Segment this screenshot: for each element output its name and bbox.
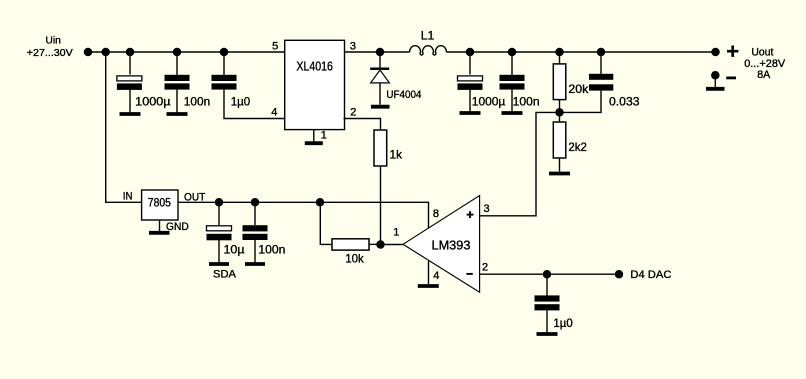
svg-text:1µ0: 1µ0: [231, 94, 251, 108]
svg-text:100n: 100n: [184, 94, 210, 108]
ground XL4016 pin1: [305, 130, 323, 144]
svg-text:1k: 1k: [390, 148, 403, 162]
svg-text:7805: 7805: [148, 195, 171, 209]
svg-text:XL4016: XL4016: [296, 58, 333, 73]
wire pin4 to ground: [428, 261, 430, 285]
wire to 7805 IN: [106, 52, 142, 202]
svg-text:4: 4: [271, 106, 277, 118]
wire node to apex: [381, 244, 404, 246]
input terminal: [84, 48, 93, 57]
junction: [376, 48, 385, 57]
svg-text:SDA: SDA: [213, 269, 237, 281]
junction: [555, 48, 564, 57]
wire 7805 OUT rail: [178, 202, 429, 228]
svg-text:Uin: Uin: [45, 35, 61, 47]
svg-text:10k: 10k: [345, 252, 364, 266]
diode D1 UF4004: [370, 52, 421, 105]
capacitor C2 100n input: [165, 52, 211, 113]
junction: [597, 48, 606, 57]
output terminal plus: [711, 48, 720, 57]
svg-text:8: 8: [433, 208, 439, 220]
junction: [220, 48, 229, 57]
op-amp U3 LM393: [403, 196, 480, 293]
capacitor C5 100n output: [500, 52, 540, 112]
svg-text:1: 1: [393, 226, 399, 238]
junction: [466, 48, 475, 57]
wire top rail left: [88, 51, 285, 53]
resistor R1 20k: [553, 52, 589, 112]
capacitor C6 0.033: [560, 52, 640, 112]
wire top rail right: [446, 51, 715, 53]
ground: [245, 262, 265, 266]
wire 1k to node: [380, 166, 382, 245]
ground: [371, 105, 390, 109]
ground: [502, 111, 523, 115]
svg-text:3: 3: [484, 203, 490, 215]
ground: [549, 172, 570, 176]
svg-text:100n: 100n: [258, 242, 285, 256]
junction: [508, 48, 517, 57]
node Uin label: [27, 35, 73, 59]
junction: [215, 198, 224, 207]
output terminal minus: [711, 71, 720, 87]
svg-text:D4 DAC: D4 DAC: [630, 269, 671, 281]
junction: [251, 198, 260, 207]
svg-text:2: 2: [482, 261, 488, 273]
terminal D4 DAC: [615, 270, 624, 279]
svg-text:5: 5: [272, 41, 278, 53]
capacitor C4 1000µ output: [458, 52, 506, 112]
svg-text:4: 4: [433, 270, 439, 282]
ground: [167, 112, 188, 116]
junction: [101, 48, 110, 57]
junction: [173, 48, 182, 57]
minus input mark: [466, 273, 472, 275]
ground SDA: [209, 264, 237, 281]
resistor R3 1k: [374, 130, 403, 166]
ground: [706, 87, 725, 91]
svg-text:1: 1: [321, 129, 327, 141]
ground LM393: [418, 284, 439, 288]
capacitor C3 1µ0: [212, 52, 286, 119]
svg-text:2: 2: [350, 106, 356, 118]
svg-text:2k2: 2k2: [568, 140, 587, 154]
svg-text:1000µ: 1000µ: [472, 95, 506, 109]
capacitor C7 10µ: [207, 202, 245, 262]
plus sign: [727, 46, 738, 57]
wire 10k branch: [320, 202, 332, 244]
svg-text:3: 3: [350, 41, 356, 53]
wire top rail mid: [345, 51, 410, 53]
junction: [543, 270, 552, 279]
junction: [316, 198, 325, 207]
junction: [126, 48, 135, 57]
op-amp U1 XL4016: [285, 40, 345, 129]
node FB junction: [555, 108, 564, 117]
ground 7805: [149, 221, 170, 233]
svg-text:20k: 20k: [568, 82, 589, 96]
svg-text:Uout: Uout: [751, 46, 773, 58]
svg-text:L1: L1: [421, 29, 435, 43]
ground: [460, 111, 481, 115]
svg-text:UF4004: UF4004: [386, 89, 421, 101]
plus input mark: [467, 211, 474, 218]
wire pin2 out: [480, 273, 619, 275]
capacitor C9 1µ0 low: [535, 274, 574, 332]
svg-text:+27...30V: +27...30V: [27, 47, 73, 59]
svg-text:IN: IN: [123, 190, 133, 202]
ground: [120, 112, 141, 116]
svg-text:10µ: 10µ: [224, 242, 245, 256]
svg-text:1µ0: 1µ0: [553, 316, 573, 330]
wire 10k to node: [369, 243, 381, 245]
minus sign: [726, 77, 736, 80]
svg-text:1000µ: 1000µ: [135, 94, 170, 108]
wire FB to comparator: [480, 112, 560, 215]
wire XL4016 pin2 to 1k: [344, 119, 381, 131]
node comparator output junction: [376, 240, 385, 249]
resistor R4 10k: [332, 239, 369, 266]
ground: [537, 332, 558, 336]
inductor L1: [410, 29, 447, 56]
svg-text:LM393: LM393: [432, 237, 471, 252]
regulator U2 7805: [142, 190, 178, 220]
resistor R2 2k2: [553, 112, 587, 171]
capacitor C8 100n low: [243, 202, 286, 262]
capacitor C1 1000µ input: [117, 52, 171, 113]
svg-text:8A: 8A: [757, 69, 771, 81]
pin 8: [433, 208, 439, 220]
svg-text:100n: 100n: [513, 95, 540, 109]
node Uout label: [744, 46, 786, 81]
svg-text:0.033: 0.033: [609, 94, 640, 108]
